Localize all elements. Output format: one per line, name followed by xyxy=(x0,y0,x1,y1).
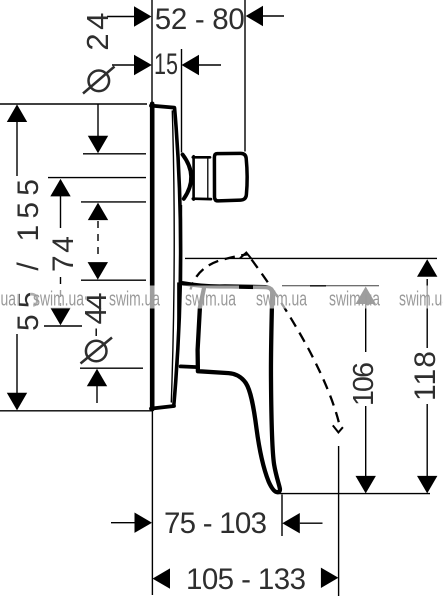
node: lever tip level reference xyxy=(278,493,431,495)
svg-text:swim.ua: swim.ua xyxy=(329,289,381,311)
tick at raised position xyxy=(240,253,251,259)
svg-text:24: 24 xyxy=(80,13,115,51)
dashed swing arc xyxy=(252,260,340,427)
wire: bottom left vertical reference xyxy=(151,412,153,596)
svg-text:swim.ua: swim.ua xyxy=(33,289,85,311)
svg-text:swim.ua: swim.ua xyxy=(399,289,443,311)
wire: knob front vertical reference xyxy=(244,0,246,152)
dimension 118 xyxy=(409,259,442,493)
svg-text:52 - 80: 52 - 80 xyxy=(155,3,245,36)
svg-text:swim.ua: swim.ua xyxy=(185,289,237,311)
node: lever top reference xyxy=(282,285,379,287)
dimension 106 xyxy=(348,287,380,494)
wire: wall plane vertical reference xyxy=(181,49,183,281)
dimension line Ø24 xyxy=(88,105,108,259)
wire: 75-103 right vertical reference xyxy=(281,495,283,537)
svg-text:swim.ua: swim.ua xyxy=(0,289,17,311)
node: raised lever top reference xyxy=(185,257,437,259)
dimension 74 xyxy=(47,179,80,325)
dimension 52 - 80 xyxy=(107,3,284,36)
node: knob top projection line xyxy=(83,153,146,155)
wire: 105-133 right vertical reference xyxy=(338,446,340,596)
hub rear edge xyxy=(177,283,179,366)
dimension 55 / 155 xyxy=(7,104,45,410)
label Ø 24 xyxy=(80,13,115,94)
watermark row xyxy=(0,286,443,311)
dimension Ø 44 xyxy=(78,262,113,403)
svg-text:106: 106 xyxy=(348,362,380,406)
node: plate top projection line xyxy=(0,103,147,105)
dimension 15 xyxy=(112,48,221,81)
wire: plate front vertical reference xyxy=(151,0,153,103)
svg-text:swim.ua: swim.ua xyxy=(256,289,308,311)
escutcheon plate xyxy=(151,104,181,410)
hub bottom connector xyxy=(181,364,198,369)
svg-text:105 - 133: 105 - 133 xyxy=(186,563,306,596)
lever handle xyxy=(178,283,280,492)
node: lever pivot centerline xyxy=(44,325,82,327)
svg-text:15: 15 xyxy=(154,48,178,81)
node: plate bottom projection line xyxy=(0,410,152,412)
svg-text:74: 74 xyxy=(47,236,80,272)
node: knob bottom projection line xyxy=(81,201,146,203)
diverter knob xyxy=(183,153,248,201)
svg-text:swim.ua: swim.ua xyxy=(109,289,161,311)
svg-text:118: 118 xyxy=(409,351,442,401)
node: hub top projection line xyxy=(81,279,146,281)
node: hub bottom projection line xyxy=(80,367,143,369)
dashed raised lever line xyxy=(191,254,248,289)
dimension 75 - 103 xyxy=(111,507,323,540)
tick at arc end xyxy=(333,425,343,432)
node: knob centerline xyxy=(48,177,146,179)
dimension 105 - 133 xyxy=(153,563,339,596)
svg-text:75 - 103: 75 - 103 xyxy=(164,507,267,540)
